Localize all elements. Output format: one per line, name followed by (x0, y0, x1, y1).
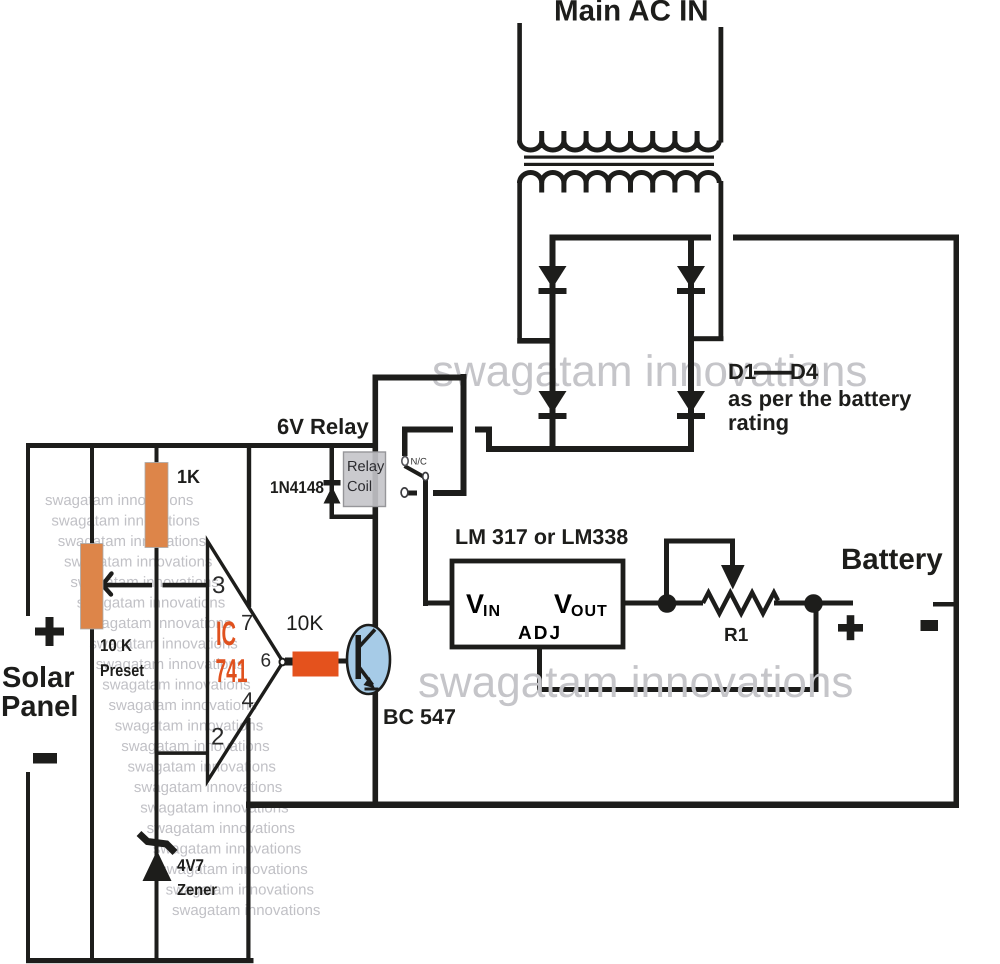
svg-text:swagatam innovations: swagatam innovations (418, 658, 853, 707)
svg-text:10 K: 10 K (100, 636, 133, 655)
svg-text:V: V (466, 589, 484, 619)
svg-text:4: 4 (242, 688, 254, 713)
svg-text:IN: IN (483, 603, 501, 620)
svg-text:2: 2 (211, 724, 224, 751)
svg-text:swagatam innovations: swagatam innovations (172, 902, 320, 919)
svg-text:swagatam innovations: swagatam innovations (147, 820, 295, 837)
svg-text:Zener: Zener (177, 882, 217, 899)
svg-text:BC 547: BC 547 (383, 705, 456, 729)
svg-text:Relay: Relay (347, 459, 385, 475)
svg-text:D4: D4 (790, 359, 819, 384)
svg-text:swagatam innovations: swagatam innovations (109, 697, 257, 714)
svg-text:OUT: OUT (571, 603, 608, 620)
svg-text:D1: D1 (728, 359, 756, 384)
svg-text:swagatam innovations: swagatam innovations (51, 513, 199, 530)
svg-text:Coil: Coil (347, 479, 372, 495)
svg-text:as per the battery: as per the battery (728, 386, 912, 411)
svg-text:741: 741 (216, 652, 248, 689)
svg-text:V: V (554, 589, 572, 619)
svg-text:10K: 10K (286, 612, 323, 635)
svg-text:swagatam innovations: swagatam innovations (58, 533, 206, 550)
svg-text:Battery: Battery (841, 543, 943, 576)
svg-text:4V7: 4V7 (177, 856, 204, 875)
svg-text:R1: R1 (724, 625, 749, 646)
svg-text:IC: IC (216, 615, 236, 653)
svg-text:6: 6 (261, 651, 272, 672)
svg-text:ADJ: ADJ (518, 623, 562, 644)
svg-text:1N4148: 1N4148 (270, 478, 324, 497)
svg-text:N/C: N/C (411, 457, 428, 468)
svg-text:LM 317 or LM338: LM 317 or LM338 (455, 525, 628, 549)
svg-text:Main AC IN: Main AC IN (554, 0, 709, 28)
svg-text:Preset: Preset (100, 661, 144, 680)
svg-text:Panel: Panel (1, 691, 78, 723)
svg-text:7: 7 (241, 610, 253, 635)
svg-text:rating: rating (728, 410, 789, 435)
svg-text:3: 3 (212, 572, 225, 599)
svg-text:6V Relay: 6V Relay (277, 414, 369, 439)
svg-text:Solar: Solar (2, 662, 75, 694)
svg-text:1K: 1K (177, 467, 200, 488)
svg-text:swagatam innovations: swagatam innovations (128, 759, 276, 776)
svg-text:swagatam innovations: swagatam innovations (45, 492, 193, 509)
